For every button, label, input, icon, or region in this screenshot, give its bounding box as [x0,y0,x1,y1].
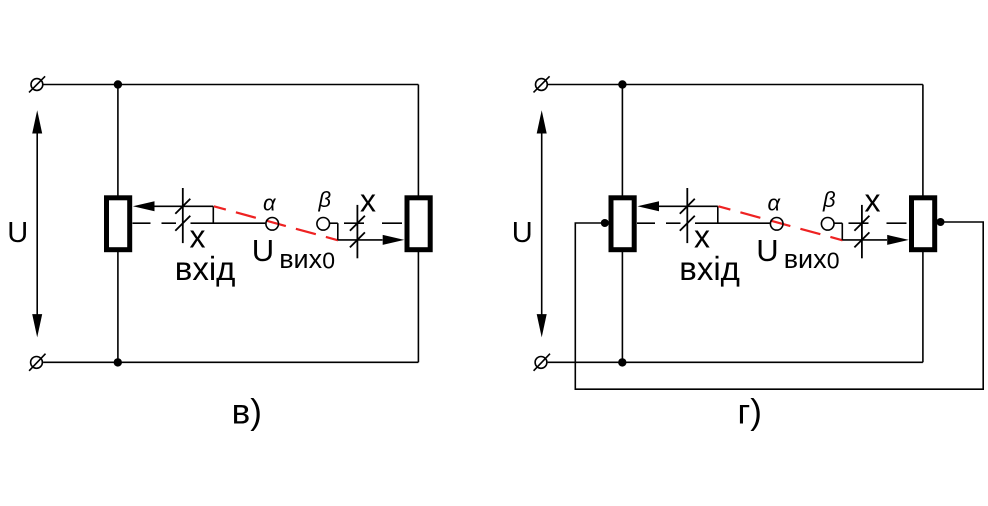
displacement tick marks x (right) [854,205,869,258]
terminal XT4 (bottom input, circle-slash) [534,354,550,371]
potentiometer R4 (output) [912,198,935,250]
svg-text:вхід: вхід [175,250,236,287]
wire to wiper of right potentiometer [842,239,887,241]
circuit в) (left) [7,76,430,431]
feedback wire loop [575,222,983,389]
junction node on right edge of R4 [937,218,945,226]
junction node on left edge of R3 [601,219,609,227]
svg-text:вих: вих [784,244,827,274]
svg-text:х: х [360,183,376,219]
wire left branch lower [621,252,623,363]
wire wiper step (right) [841,223,843,240]
wire wiper step (left) [212,206,214,223]
wire right branch upper [417,85,419,197]
circuit г) (right) [512,76,984,431]
dashed zero-position line (right) [849,222,910,224]
terminal XT2 (bottom input, circle-slash) [29,354,45,371]
wiper arrow of R4 [887,235,909,245]
potentiometer R1 (input) [107,198,130,250]
wire wiper step (right) [337,223,339,240]
svg-text:х: х [865,183,881,219]
svg-text:0: 0 [827,248,840,274]
terminal XT3 (top input, circle-slash) [534,76,550,92]
wire top rail [44,84,419,86]
svg-text:U: U [7,217,28,249]
svg-text:U: U [252,233,274,268]
svg-text:U: U [512,217,533,249]
wire right branch upper [922,85,924,197]
pivot beta (circle) [317,218,330,231]
junction node bottom [618,358,626,366]
junction node top [618,80,626,88]
dimension arrow U (double-headed vertical) [537,110,547,337]
terminal XT1 (top input, circle-slash) [29,76,45,92]
wire from pivot beta [330,222,338,224]
pivot alpha (circle) [770,218,783,231]
potentiometer R2 (output) [407,198,430,250]
potentiometer R3 (input) [611,198,634,250]
label U вих 0 (output voltage) [756,233,839,274]
wire top rail [548,84,923,86]
wire to wiper of right potentiometer [338,239,383,241]
dashed zero-position line (right) [344,222,405,224]
red dashed linkage line [718,206,842,240]
junction node bottom [114,358,122,366]
wiper arrow of R3 [637,201,717,211]
wire wiper step (left) [717,206,719,223]
pivot alpha (circle) [266,218,279,231]
label U вих 0 (output voltage) [252,233,335,274]
wire to pivot alpha [191,222,266,224]
svg-text:г): г) [738,392,762,431]
displacement tick marks x (left) [680,188,695,243]
svg-text:α: α [263,191,277,216]
wire left branch lower [117,252,119,363]
svg-text:вих: вих [279,244,322,274]
wire from pivot beta [834,222,842,224]
junction node top [114,80,122,88]
wire to pivot alpha [695,222,770,224]
svg-text:U: U [756,233,778,268]
svg-text:β: β [822,187,836,212]
svg-text:в): в) [232,392,262,431]
wire right branch lower [417,252,419,363]
wire right branch lower [922,252,924,363]
dashed zero-position line (left) [133,222,177,224]
wire bottom rail [548,361,923,363]
dimension arrow U (double-headed vertical) [32,110,42,337]
displacement tick marks x (right) [350,205,365,258]
wiper arrow of R2 [383,235,405,245]
wire left branch upper [117,85,119,197]
displacement tick marks x (left) [175,188,190,243]
red dashed linkage line [214,206,338,240]
svg-text:α: α [768,191,782,216]
svg-text:вхід: вхід [679,250,740,287]
dashed zero-position line (left) [637,222,681,224]
pivot beta (circle) [821,218,834,231]
svg-text:0: 0 [322,248,335,274]
svg-text:β: β [318,187,332,212]
wire left branch upper [621,85,623,197]
wire bottom rail [43,361,418,363]
wiper arrow of R1 [133,201,213,211]
